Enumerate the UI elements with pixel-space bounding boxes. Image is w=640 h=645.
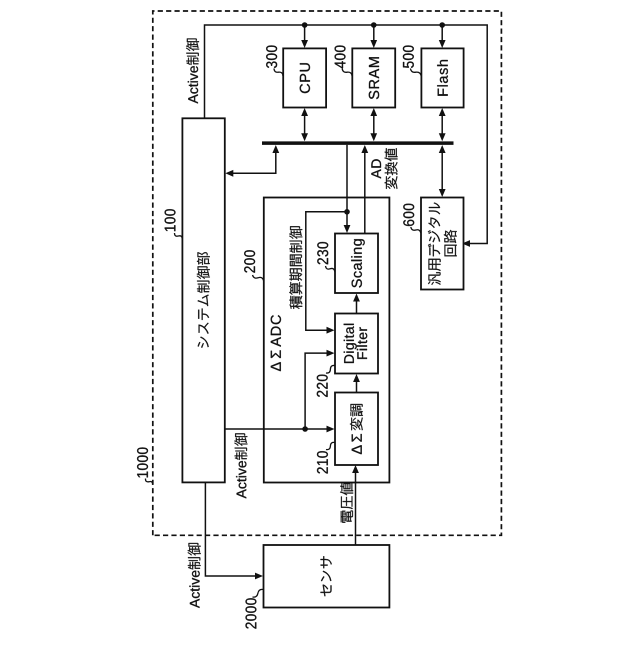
wire Active-seigyo from system controller to sensor	[205, 482, 263, 579]
block 600 general purpose digital circuit box	[421, 198, 464, 290]
leader for 400	[342, 69, 352, 77]
wire CPU-bus double arrow	[301, 108, 308, 141]
ref numeral 400	[335, 46, 346, 69]
ref numeral 200	[244, 250, 255, 272]
wire Flash-bus double arrow	[439, 108, 446, 141]
leader for 500	[410, 69, 421, 77]
block 100 system controller box	[182, 118, 224, 482]
ref numeral 2000	[246, 598, 257, 628]
wire Digital Filter to Scaling	[353, 294, 360, 314]
label general purpose digital circuit line2	[444, 230, 457, 256]
leader for 210	[326, 442, 335, 449]
outer dashed system boundary 1000	[153, 11, 502, 535]
label general purpose digital circuit line1	[428, 203, 441, 285]
block 210 delta-sigma modulator box	[335, 393, 378, 466]
wire branch arrow into CPU	[301, 25, 308, 48]
wire 600-bus double arrow	[439, 145, 446, 197]
label Active-seigyo bottom	[188, 543, 201, 608]
label delta-sigma modulator text	[350, 404, 363, 454]
wire Active-seigyo from system controller to CPU/SRAM/Flash and feedback to 600	[205, 25, 488, 247]
leader for 230	[326, 266, 335, 272]
leader for 1000	[145, 479, 152, 485]
wire branch to Digital Filter lower	[305, 350, 334, 429]
ref numeral 210	[317, 451, 328, 473]
leader for 300	[274, 69, 283, 77]
data bus	[262, 141, 454, 145]
wire SRAM-bus double arrow	[370, 108, 377, 141]
ref numeral 1000	[137, 448, 148, 478]
block 500 Flash box	[421, 48, 463, 107]
label voltage value	[340, 482, 353, 522]
label sensor text	[321, 556, 332, 596]
wire branch to Digital Filter upper	[306, 212, 347, 334]
label Digital Filter text line1	[344, 324, 357, 363]
junction node on scaling control wire	[344, 209, 350, 215]
ref numeral 230	[317, 242, 328, 264]
block 220 Digital Filter box	[335, 314, 378, 374]
block 200 delta-sigma ADC outer box	[264, 198, 390, 483]
leader for 220	[326, 365, 335, 373]
wire delta-sigma modulator to Digital Filter	[353, 374, 360, 393]
leader for 600	[411, 227, 421, 233]
label integration period control	[289, 226, 302, 309]
wire branch arrow into Flash	[439, 25, 446, 48]
leader for 200	[253, 275, 264, 281]
label SRAM text	[369, 57, 379, 99]
wire voltage value from sensor to Delta-Sigma modulator	[352, 465, 359, 545]
wire Active-seigyo from system controller to Delta-Sigma modulator	[225, 426, 335, 433]
block 2000 sensor box	[264, 545, 390, 608]
block 300 CPU box	[283, 48, 326, 107]
label Active-seigyo top	[186, 39, 199, 104]
label Flash text	[437, 60, 448, 96]
wire bus to system controller	[225, 145, 279, 177]
wire branch arrow into SRAM	[370, 25, 377, 48]
ref numeral 500	[403, 46, 414, 68]
label delta-sigma ADC text	[271, 315, 281, 371]
label AD conversion value line2	[385, 148, 398, 189]
ref numeral 100	[165, 209, 176, 231]
label system controller text	[197, 252, 210, 348]
block 400 SRAM box	[352, 48, 395, 107]
label CPU text	[300, 63, 310, 93]
wire bus to Scaling (sekisan control)	[344, 145, 351, 233]
junction node on modulator control wire	[302, 426, 308, 432]
ref numeral 600	[403, 204, 414, 226]
junction node at Flash branch	[439, 22, 445, 28]
label Active-seigyo middle	[234, 433, 247, 498]
ref numeral 220	[317, 375, 328, 397]
leader for 2000	[253, 589, 264, 597]
wire AD conversion value from Scaling to bus	[361, 145, 368, 234]
ref numeral 300	[266, 46, 277, 69]
leader for 100	[175, 233, 183, 239]
label Digital Filter text line2	[357, 327, 367, 359]
label AD conversion value line1	[371, 159, 381, 178]
junction node at SRAM branch	[371, 22, 377, 28]
block 230 Scaling box	[335, 234, 378, 294]
junction node at CPU branch	[302, 22, 308, 28]
label Scaling text	[351, 239, 365, 287]
